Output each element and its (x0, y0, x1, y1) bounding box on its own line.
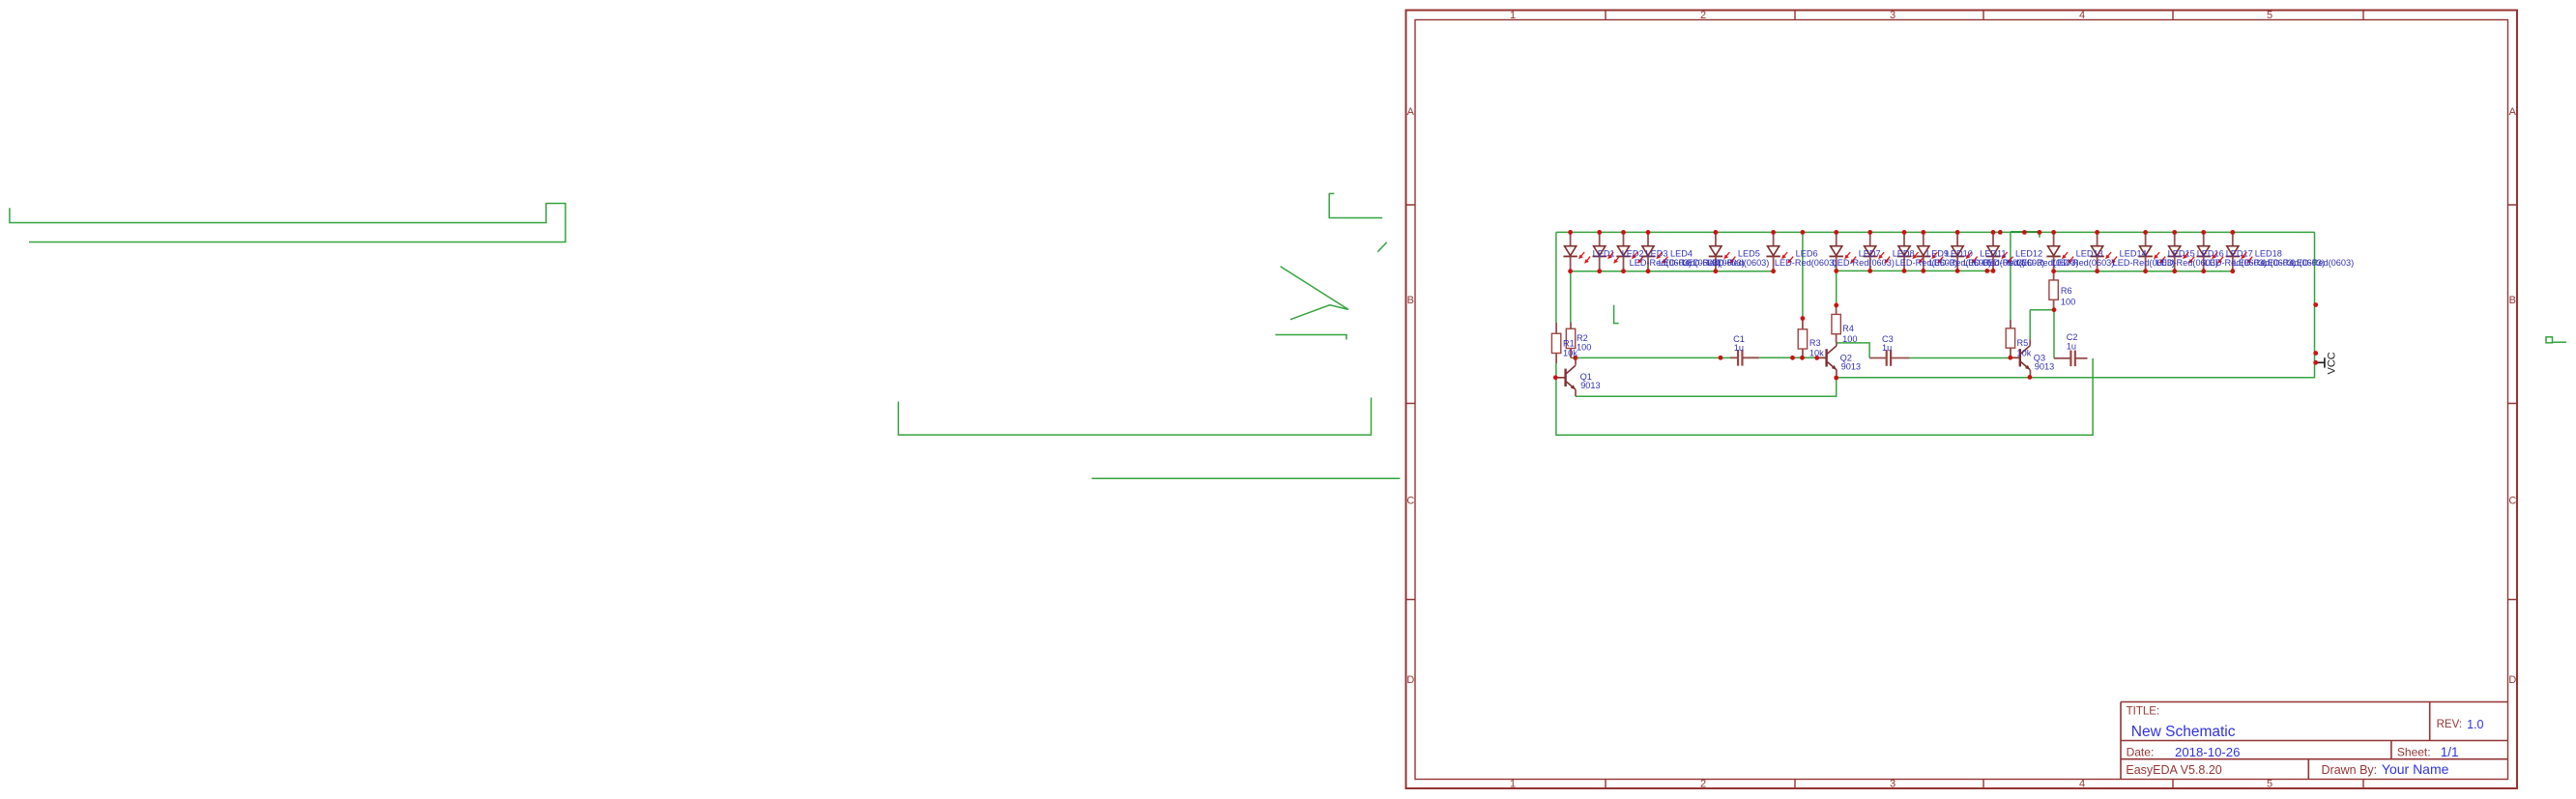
svg-text:Date:: Date: (2127, 746, 2155, 759)
svg-text:9013: 9013 (2035, 362, 2054, 372)
svg-text:C: C (2508, 496, 2516, 507)
svg-text:10k: 10k (2017, 349, 2032, 358)
svg-text:LED2: LED2 (1622, 248, 1644, 258)
svg-text:REV:: REV: (2437, 719, 2462, 730)
svg-text:LED7: LED7 (1859, 248, 1881, 258)
svg-text:100: 100 (2061, 298, 2075, 307)
svg-text:B: B (1407, 295, 1414, 306)
svg-text:10k: 10k (1563, 349, 1577, 358)
svg-text:5: 5 (2267, 779, 2272, 790)
svg-text:A: A (2509, 106, 2517, 118)
svg-text:LED-Red(0603): LED-Red(0603) (2052, 258, 2114, 268)
svg-text:R2: R2 (1577, 333, 1588, 343)
svg-text:5: 5 (2267, 10, 2272, 21)
svg-text:EasyEDA V5.8.20: EasyEDA V5.8.20 (2126, 763, 2221, 777)
svg-text:1u: 1u (1882, 343, 1892, 353)
svg-text:LED1: LED1 (1593, 248, 1615, 258)
svg-text:10k: 10k (1809, 349, 1824, 358)
svg-text:LED-Red(0603): LED-Red(0603) (1833, 258, 1895, 268)
svg-text:LED-Red(0603): LED-Red(0603) (1707, 258, 1769, 268)
svg-text:3: 3 (1890, 779, 1896, 790)
svg-text:1u: 1u (2067, 342, 2076, 352)
svg-text:100: 100 (1577, 343, 1591, 353)
svg-text:R3: R3 (1809, 338, 1821, 348)
svg-text:LED3: LED3 (1646, 248, 1668, 258)
svg-text:LED16: LED16 (2197, 248, 2224, 258)
svg-text:LED17: LED17 (2226, 248, 2253, 258)
svg-text:4: 4 (2079, 779, 2085, 790)
svg-text:R6: R6 (2061, 286, 2072, 296)
svg-text:2: 2 (1700, 779, 1706, 790)
svg-text:1: 1 (1510, 10, 1516, 21)
svg-text:New Schematic: New Schematic (2131, 724, 2236, 740)
svg-text:LED13: LED13 (2076, 248, 2103, 258)
svg-text:1.0: 1.0 (2467, 718, 2483, 731)
svg-text:Sheet:: Sheet: (2397, 746, 2431, 759)
svg-text:Your Name: Your Name (2382, 761, 2449, 777)
svg-text:2: 2 (1700, 10, 1706, 21)
svg-text:A: A (1407, 106, 1415, 118)
svg-text:100: 100 (1842, 334, 1857, 344)
svg-text:3: 3 (1890, 10, 1896, 21)
svg-text:C2: C2 (2067, 332, 2078, 342)
svg-text:1: 1 (1510, 779, 1516, 790)
svg-text:LED-Red(0603): LED-Red(0603) (2292, 258, 2354, 268)
svg-text:C: C (1406, 496, 1414, 507)
svg-text:LED14: LED14 (2120, 248, 2147, 258)
svg-text:Drawn By:: Drawn By: (2322, 763, 2378, 777)
svg-text:R5: R5 (2017, 338, 2029, 348)
svg-text:R1: R1 (1563, 339, 1575, 349)
svg-text:4: 4 (2079, 10, 2085, 21)
svg-text:D: D (1406, 674, 1414, 686)
svg-text:1u: 1u (1734, 343, 1744, 353)
svg-text:LED10: LED10 (1946, 248, 1973, 258)
svg-text:B: B (2509, 295, 2516, 306)
svg-text:D: D (2508, 674, 2516, 686)
svg-text:2018-10-26: 2018-10-26 (2175, 745, 2240, 759)
svg-text:LED6: LED6 (1796, 248, 1818, 258)
svg-text:LED4: LED4 (1670, 248, 1693, 258)
svg-text:TITLE:: TITLE: (2127, 706, 2160, 718)
svg-text:LED15: LED15 (2168, 248, 2195, 258)
svg-text:9013: 9013 (1580, 381, 1600, 390)
svg-text:1/1: 1/1 (2441, 745, 2459, 759)
svg-text:LED11: LED11 (1980, 248, 2006, 258)
svg-text:9013: 9013 (1841, 362, 1861, 372)
svg-text:R4: R4 (1842, 324, 1854, 333)
svg-text:LED5: LED5 (1738, 248, 1760, 258)
svg-text:LED-Red(0603): LED-Red(0603) (1775, 258, 1837, 268)
svg-text:VCC: VCC (2327, 352, 2338, 374)
svg-text:LED8: LED8 (1893, 248, 1915, 258)
svg-text:LED18: LED18 (2255, 248, 2282, 258)
svg-text:LED12: LED12 (2015, 248, 2042, 258)
